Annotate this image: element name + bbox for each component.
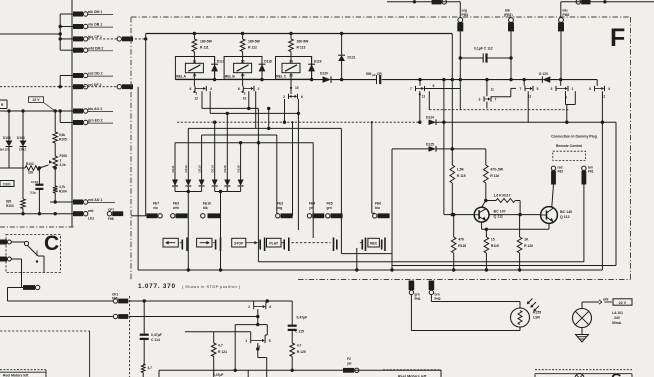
switch box dashed	[6, 235, 61, 273]
svg-text:D101: D101	[3, 182, 11, 186]
section letter F	[610, 24, 625, 52]
pin AD 1	[73, 198, 115, 204]
svg-text:(FB1): (FB1)	[504, 13, 513, 17]
svg-text:0,47μF: 0,47μF	[297, 316, 308, 320]
contact relay C	[283, 79, 303, 99]
wire DF2 dashed	[0, 85, 118, 88]
svg-text:4,7: 4,7	[148, 366, 153, 370]
svg-text:Reel Motors left: Reel Motors left	[3, 374, 29, 377]
wire y122.8 line	[527, 121, 529, 124]
wire drop col 313	[312, 143, 314, 238]
pin FB1	[504, 8, 514, 31]
resistor R102	[0, 162, 49, 175]
contact C111	[410, 80, 460, 124]
svg-text:1: 1	[60, 159, 62, 163]
svg-text:4,7k: 4,7k	[59, 185, 65, 189]
wire mesh m2	[210, 112, 298, 115]
svg-text:D114: D114	[211, 165, 215, 173]
wire drop FE6 col	[371, 121, 375, 213]
svg-text:D111: D111	[171, 165, 175, 172]
contact 3-1	[551, 80, 576, 124]
svg-text:yel: yel	[309, 206, 314, 210]
wire col 220 down	[220, 192, 222, 271]
svg-text:8: 8	[589, 87, 591, 91]
svg-text:11: 11	[422, 95, 426, 99]
diode D111	[171, 143, 178, 192]
svg-text:2: 2	[283, 95, 285, 99]
diode D113	[197, 135, 204, 192]
wire collector link	[489, 214, 541, 216]
svg-text:REC: REC	[370, 241, 378, 245]
wire stub OD2	[60, 75, 73, 77]
connector F2	[343, 357, 359, 372]
wire mesh m5	[188, 121, 341, 129]
wire bottom bus	[138, 268, 602, 271]
diode D123	[539, 72, 550, 83]
wire stub DM2	[60, 49, 73, 51]
pin OB 1	[73, 23, 113, 29]
svg-text:F62: F62	[558, 170, 564, 174]
svg-text:μF: μF	[372, 73, 376, 77]
wire mesh m4 dashed	[177, 121, 616, 124]
button PLAY	[267, 238, 289, 252]
wire CP1 entry	[131, 37, 147, 40]
svg-text:wht: wht	[87, 209, 94, 213]
contact e11 7-5	[520, 80, 539, 123]
resistor R119	[484, 229, 499, 270]
svg-text:F61: F61	[588, 170, 594, 174]
svg-text:org: org	[462, 8, 467, 12]
capacitor C114	[140, 301, 162, 364]
svg-text:D118: D118	[264, 60, 272, 64]
pin EO 2	[73, 119, 113, 125]
svg-text:org: org	[277, 206, 282, 210]
wire base line	[444, 213, 474, 216]
diode D104	[17, 111, 27, 199]
svg-text:R 121: R 121	[218, 350, 227, 354]
svg-text:wht DM 2: wht DM 2	[87, 46, 103, 50]
dummy plug box dashed	[553, 151, 586, 160]
svg-text:1: 1	[245, 339, 247, 343]
box bottom-left section	[0, 331, 90, 377]
diode D116	[236, 143, 243, 192]
resistor R116	[484, 165, 504, 201]
caption box bottom-mid2	[383, 370, 441, 377]
wire drop relay C right	[297, 99, 300, 230]
node 22V box right	[613, 299, 632, 305]
svg-text:R 113: R 113	[297, 46, 306, 50]
svg-text:24V: 24V	[614, 316, 621, 320]
svg-text:3: 3	[479, 98, 481, 102]
wire drop relay C left	[283, 99, 286, 124]
svg-text:3: 3	[551, 87, 553, 91]
svg-text:blk DM 1: blk DM 1	[88, 10, 102, 14]
wire rec box bottom	[341, 253, 392, 255]
svg-text:R118: R118	[458, 244, 466, 248]
photoresistor R155 LSR	[511, 299, 542, 328]
wire mesh m3	[267, 107, 270, 129]
contact relay A	[190, 79, 212, 100]
pin bottom-left	[23, 285, 40, 290]
svg-text:5: 5	[269, 339, 271, 343]
wire feeder segment group1	[59, 14, 61, 50]
svg-text:yel: yel	[347, 361, 352, 365]
diode D114	[211, 122, 218, 191]
svg-text:D121: D121	[348, 55, 356, 59]
connector pair F68	[107, 208, 123, 221]
svg-text:F: F	[610, 24, 625, 52]
pin AO 2	[73, 107, 113, 113]
svg-text:1K: 1K	[524, 237, 529, 241]
transistor Q112	[541, 207, 573, 224]
svg-text:blk: blk	[203, 206, 208, 210]
capacitor C101	[30, 168, 43, 214]
wire feeder group3	[59, 111, 61, 123]
wire y96.9 link	[491, 88, 516, 96]
wire FH2 to LDR	[431, 295, 520, 308]
svg-text:5: 5	[433, 84, 435, 88]
wire D125 line	[392, 147, 486, 150]
svg-text:R 111: R 111	[200, 46, 209, 50]
wire DF2 column	[137, 87, 139, 270]
wire LD1 line	[0, 212, 73, 215]
svg-text:R155: R155	[533, 311, 541, 315]
svg-text:0,47μF: 0,47μF	[151, 333, 162, 337]
svg-text:5: 5	[195, 92, 197, 96]
svg-text:FH2: FH2	[435, 297, 441, 301]
diode D121	[338, 34, 355, 80]
pin CP 1	[73, 35, 102, 41]
svg-text:PLAY: PLAY	[269, 241, 278, 245]
wire y316 line	[129, 316, 258, 318]
wire upper bus	[146, 32, 453, 35]
svg-text:22 V: 22 V	[619, 301, 627, 305]
wire col 235 down	[234, 325, 237, 372]
wire left section bottom dashdot	[0, 226, 74, 228]
wire stub DM1	[60, 13, 73, 15]
pin FH1	[409, 281, 421, 301]
wire right column	[615, 122, 617, 265]
svg-text:R104: R104	[59, 190, 67, 194]
contact b contact 3-7	[479, 80, 497, 109]
svg-text:6: 6	[301, 95, 303, 99]
wire lamp top	[582, 297, 609, 308]
wire drop relay B center	[247, 91, 250, 110]
pin FE5	[326, 202, 343, 219]
wire y261.8 line	[259, 261, 584, 263]
svg-text:REL C: REL C	[276, 75, 286, 79]
wire drop relay A center	[201, 91, 203, 108]
svg-text:ZP12: ZP12	[19, 148, 27, 152]
wire mesh m1	[202, 108, 270, 130]
resistor R103	[6, 199, 25, 214]
wire drop relay A right	[209, 91, 211, 113]
svg-text:3,3μ: 3,3μ	[30, 190, 36, 194]
wire contact15 left	[185, 332, 251, 338]
wire second line	[0, 316, 113, 318]
button REC	[360, 238, 385, 252]
svg-text:D125: D125	[426, 142, 434, 146]
svg-text:D103: D103	[3, 136, 11, 140]
pin switch lower	[0, 257, 22, 262]
section letter C	[44, 232, 59, 255]
svg-text:2: 2	[258, 87, 260, 91]
wire stub CP1	[59, 37, 74, 40]
wire drop relay B right	[255, 91, 257, 128]
svg-text:6: 6	[238, 87, 240, 91]
pin FM1	[457, 8, 468, 31]
connector pair CF1	[112, 292, 128, 303]
svg-text:R 116: R 116	[490, 174, 499, 178]
switch lever	[24, 241, 38, 262]
wire stub OB1	[59, 25, 74, 28]
button wind	[197, 238, 221, 252]
lamp G box	[575, 374, 584, 377]
svg-text:vio OB 1: vio OB 1	[88, 23, 102, 27]
resistor R117	[484, 193, 522, 216]
wire FH1 to LDR	[411, 295, 520, 331]
resistor R121b small	[141, 364, 152, 377]
caption box bottom-center	[159, 370, 248, 377]
button STOP	[232, 238, 265, 252]
svg-text:FM1: FM1	[462, 13, 469, 17]
wire stub 356	[356, 248, 358, 270]
svg-text:REL A: REL A	[176, 75, 186, 79]
wire rec box right	[391, 149, 393, 270]
wire y301 line	[129, 299, 293, 302]
lamp LA101	[573, 309, 624, 328]
pin FE3	[276, 202, 293, 219]
wire left section border	[71, 0, 73, 227]
wire left drop x145	[145, 34, 147, 216]
text dummy plug	[551, 135, 597, 148]
svg-text:2: 2	[248, 305, 250, 309]
svg-text:grn: grn	[327, 206, 332, 210]
pin FE4	[307, 202, 324, 219]
svg-text:F68: F68	[108, 217, 114, 221]
svg-text:6: 6	[190, 87, 192, 91]
wire feeder group2	[59, 76, 61, 87]
wire mesh m7	[175, 141, 313, 144]
wire stop column	[257, 108, 259, 261]
svg-text:D119: D119	[314, 60, 322, 64]
svg-text:6: 6	[269, 305, 271, 309]
wire main bus	[175, 78, 597, 81]
wire diode join A	[175, 190, 202, 193]
resistor R104	[53, 166, 67, 202]
wire into feeder	[0, 32, 62, 35]
svg-text:2,2k: 2,2k	[60, 163, 66, 167]
wire F61 drop	[583, 185, 585, 262]
button rewind	[163, 238, 187, 252]
svg-text:blu: blu	[375, 206, 380, 210]
wire Q112 collector	[552, 185, 554, 207]
svg-text:C 114: C 114	[151, 338, 160, 342]
svg-text:D116: D116	[236, 165, 240, 173]
diode D125	[426, 142, 436, 151]
svg-text:4,7: 4,7	[297, 343, 302, 347]
svg-text:11: 11	[491, 88, 495, 92]
connector pair CP1-F	[117, 37, 133, 42]
svg-text:R103: R103	[6, 204, 14, 208]
connector top	[432, 0, 447, 4]
svg-text:15: 15	[491, 237, 495, 241]
svg-text:R119: R119	[491, 244, 499, 248]
box section G	[535, 370, 632, 377]
svg-text:4,7: 4,7	[218, 343, 223, 347]
connector top-right	[576, 0, 591, 4]
resistor R115	[450, 165, 466, 215]
svg-text:470: 470	[458, 237, 464, 241]
svg-text:5,6k: 5,6k	[59, 133, 65, 137]
contact 2-6	[248, 301, 271, 318]
svg-text:Remote Control: Remote Control	[556, 144, 582, 148]
resistor R120	[517, 215, 533, 270]
svg-text:R102: R102	[26, 162, 34, 166]
resistor R121	[211, 332, 227, 377]
capacitor C112	[460, 46, 511, 62]
svg-text:C101: C101	[31, 180, 39, 184]
diode D112	[184, 128, 191, 270]
wire FE7 feed	[131, 215, 147, 217]
svg-text:FH1: FH1	[415, 297, 421, 301]
svg-text:BA127: BA127	[0, 148, 10, 152]
caption box reel motors	[0, 370, 46, 377]
pin DM 1	[73, 10, 113, 16]
svg-text:0,1μF C 112: 0,1μF C 112	[474, 46, 493, 50]
svg-text:R105: R105	[59, 138, 67, 142]
section letter G	[611, 370, 622, 377]
wire base column	[443, 122, 445, 214]
wire mesh m6	[202, 134, 277, 136]
svg-text:10: 10	[295, 86, 299, 90]
border F bottom	[298, 279, 631, 281]
svg-text:1,6 K R117: 1,6 K R117	[494, 193, 511, 197]
svg-text:D124: D124	[426, 116, 434, 120]
svg-text:red AD 1: red AD 1	[88, 198, 102, 202]
svg-text:LA 101: LA 101	[612, 311, 623, 315]
svg-text:Connection in Dummy Plug: Connection in Dummy Plug	[551, 135, 597, 139]
svg-text:G: G	[611, 370, 622, 377]
resistor R111	[192, 34, 213, 57]
relay REL C	[276, 57, 322, 80]
svg-text:red OD 2: red OD 2	[88, 72, 103, 76]
pin F62	[551, 165, 563, 184]
svg-text:D120: D120	[320, 72, 328, 76]
svg-text:D117: D117	[217, 60, 225, 64]
svg-text:blu AO 2: blu AO 2	[88, 107, 102, 111]
svg-text:0,47μF: 0,47μF	[213, 373, 223, 377]
wire rec column	[340, 128, 342, 253]
svg-text:C: C	[44, 232, 59, 255]
wire col 267 down	[266, 325, 268, 335]
wire CP1 dashed to F	[88, 38, 117, 40]
svg-text:vio: vio	[153, 206, 158, 210]
svg-text:4: 4	[608, 87, 610, 91]
svg-text:5: 5	[537, 87, 539, 91]
wire AO2 line	[0, 109, 73, 112]
svg-text:LSR: LSR	[533, 315, 540, 319]
trimmer P106	[49, 143, 67, 168]
svg-text:blk: blk	[505, 8, 510, 12]
wire top-left feed	[387, 0, 460, 18]
capacitor CR 500uF	[366, 72, 382, 84]
diode D120	[320, 72, 331, 83]
contact e12 8-4	[589, 86, 610, 270]
svg-text:P106: P106	[60, 154, 68, 158]
relay REL B	[224, 57, 272, 80]
svg-text:D112: D112	[184, 165, 188, 173]
svg-text:BC 140: BC 140	[560, 210, 572, 214]
wire FB1 drop	[509, 31, 512, 79]
pin FE9	[171, 202, 188, 219]
wire y265 line	[392, 265, 616, 267]
resistor R105	[53, 111, 67, 143]
pin OD 2	[73, 72, 113, 78]
connector pair DF2-F	[117, 84, 133, 89]
svg-text:C 115: C 115	[295, 329, 304, 333]
wire dashed remote	[429, 91, 570, 110]
capacitor C115	[288, 301, 308, 343]
diode D103	[0, 111, 12, 168]
text board number	[138, 283, 240, 290]
pin FM2	[558, 8, 569, 31]
pin DM 2	[73, 46, 113, 52]
wire x443 link	[443, 80, 445, 123]
contact relay B	[238, 79, 260, 100]
pin FE7	[147, 202, 163, 219]
svg-text:STOP: STOP	[234, 241, 244, 245]
svg-text:7: 7	[520, 87, 522, 91]
svg-text:REL B: REL B	[225, 75, 235, 79]
ground lamp	[576, 328, 589, 343]
svg-text:4: 4	[210, 87, 212, 91]
wire top-right feed	[561, 0, 654, 18]
wire R116 feed	[485, 149, 487, 165]
wire FM2 drop	[560, 31, 562, 79]
svg-text:10: 10	[243, 96, 247, 100]
svg-text:7: 7	[495, 98, 497, 102]
svg-text:180-5W: 180-5W	[297, 40, 310, 44]
svg-text:D113: D113	[197, 165, 201, 173]
svg-text:wht: wht	[602, 297, 609, 301]
svg-text:500: 500	[366, 72, 372, 76]
svg-text:Q 112: Q 112	[560, 215, 570, 219]
svg-text:D 123: D 123	[539, 72, 548, 76]
pin DF 2	[73, 83, 101, 89]
border F right	[630, 17, 632, 280]
svg-text:( Shown in STOP position ): ( Shown in STOP position )	[182, 285, 240, 289]
border F left	[130, 17, 132, 280]
pin FE6	[373, 202, 390, 219]
svg-text:1.077. 370: 1.077. 370	[138, 283, 175, 290]
svg-text:CR: CR	[377, 72, 382, 76]
svg-text:820: 820	[6, 199, 12, 203]
svg-text:3: 3	[244, 92, 246, 96]
connector lamp	[599, 300, 612, 304]
wire AD1 line	[50, 200, 73, 203]
border bottom-section left dashed	[129, 296, 131, 377]
wire switch down	[22, 256, 45, 288]
transistor Q111	[474, 201, 505, 223]
border F top	[131, 16, 631, 18]
pin FH2	[429, 281, 441, 301]
connector pair lower	[113, 314, 128, 319]
box fragment left edge	[0, 100, 7, 109]
wire bus corner right	[596, 80, 598, 86]
pin LD 1	[73, 209, 94, 221]
wire FM1 drop	[459, 31, 462, 109]
